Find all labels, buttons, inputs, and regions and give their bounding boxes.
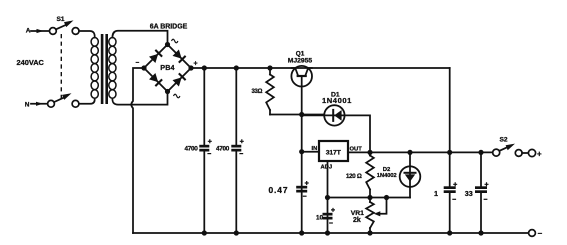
- svg-text:S1: S1: [57, 16, 65, 23]
- switch S1 pole2 left contact: [48, 100, 55, 107]
- switch S2 left contact: [493, 149, 500, 156]
- wire N with arrowhead: [31, 103, 48, 105]
- switch S1 pole2 right contact: [72, 100, 79, 107]
- node wiper junction: [384, 195, 389, 200]
- capacitor C6 33uF lead: [480, 152, 482, 233]
- wire R1 bottom to Q1 base node: [270, 114, 324, 116]
- svg-text:N: N: [25, 102, 30, 109]
- wire Q1-base-node down to IN: [301, 115, 303, 234]
- capacitor C1 4700 plates: [199, 145, 209, 148]
- diode D1 wire to OUT node: [345, 115, 370, 152]
- node output line / C5: [447, 150, 452, 155]
- AC squiggle bottom: [174, 94, 180, 98]
- node R1 top: [267, 65, 272, 70]
- bridge rectifier PB4 outline: [144, 45, 191, 92]
- node C2 top: [234, 65, 239, 70]
- transformer primary winding: [91, 38, 98, 99]
- svg-text:Q1: Q1: [296, 51, 305, 58]
- svg-text:IN: IN: [312, 146, 318, 152]
- switch S1 pole1 right contact: [72, 28, 79, 35]
- wire A with arrowhead: [31, 30, 50, 32]
- svg-text:0.47: 0.47: [269, 185, 289, 195]
- wire to primary top: [79, 31, 95, 38]
- diode D2 symbol (cathode up): [409, 166, 411, 186]
- output line from regulator: [348, 151, 493, 153]
- svg-text:4700: 4700: [185, 146, 199, 153]
- svg-text:MJ2955: MJ2955: [288, 58, 313, 65]
- node C1 top: [202, 65, 207, 70]
- node C6 bottom: [478, 230, 483, 235]
- node C6 top: [478, 150, 483, 155]
- bridge diode top-right: [172, 49, 185, 62]
- switch S1 pole1 left contact: [50, 28, 57, 35]
- node ADJ junction: [325, 195, 330, 200]
- bridge diode bottom-right: [172, 73, 185, 86]
- negative wire from bridge with crossover hop: [131, 68, 144, 233]
- svg-text:33Ω: 33Ω: [252, 89, 263, 95]
- capacitor 10 plates: [323, 213, 333, 216]
- node D2 top: [407, 150, 412, 155]
- potentiometer VR1 2k: [369, 198, 371, 203]
- wire to primary bottom: [79, 100, 95, 104]
- capacitor C5 1uF lead: [449, 152, 451, 233]
- node C2 bottom: [234, 230, 239, 235]
- node IN junction: [299, 149, 304, 154]
- transistor Q1 base lead: [301, 77, 303, 115]
- svg-text:+: +: [537, 150, 542, 159]
- node 0.47 bottom rail: [299, 230, 304, 235]
- transistor Q1 circle: [291, 66, 312, 87]
- wire rail to output line: [449, 68, 451, 152]
- diode D1 symbol (cathode left): [324, 114, 344, 116]
- AC squiggle top: [172, 39, 178, 43]
- transformer core: [101, 34, 104, 104]
- svg-text:10: 10: [316, 214, 324, 221]
- node R2 bottom: [367, 195, 372, 200]
- switch S2 right contact: [515, 150, 522, 157]
- wire ADJ node to R2/VR1 node: [328, 197, 411, 199]
- svg-text:1: 1: [434, 189, 438, 198]
- svg-text:1N4001: 1N4001: [322, 96, 352, 105]
- diode D2 lead from output line: [409, 152, 411, 166]
- top positive rail: [191, 67, 450, 69]
- capacitor 0.47 plates: [296, 186, 307, 189]
- svg-text:120 Ω: 120 Ω: [346, 173, 362, 180]
- bottom negative rail: [133, 232, 529, 234]
- node 120ohm top: [367, 150, 372, 155]
- capacitor C6 33uF plates: [475, 186, 487, 189]
- switch S2 blade: [500, 147, 508, 151]
- resistor R2 120ohm: [369, 152, 371, 155]
- output - terminal: [529, 230, 536, 237]
- svg-text:4700: 4700: [216, 146, 230, 153]
- svg-text:−: −: [538, 229, 543, 238]
- node Q1 base junction: [299, 112, 304, 117]
- bridge diode top-left: [149, 50, 162, 63]
- S1 gang dashed link: [60, 34, 62, 100]
- transistor Q1 internals: [292, 67, 312, 69]
- VR1 wiper arm: [379, 198, 387, 214]
- transformer secondary winding: [109, 38, 116, 99]
- node bridge plus: [188, 65, 193, 70]
- wire secondary top to bridge AC1: [112, 31, 167, 45]
- wire IN junction to regulator: [302, 151, 319, 153]
- regulator U1 317T box: [319, 141, 348, 161]
- wire S2 to + terminal: [522, 152, 528, 154]
- svg-text:ADJ: ADJ: [321, 165, 333, 171]
- diode D1 circle: [324, 105, 344, 125]
- node C1 bottom: [202, 230, 207, 235]
- capacitor C2 4700 plates: [231, 145, 241, 148]
- svg-text:1N4002: 1N4002: [377, 173, 397, 179]
- svg-text:2k: 2k: [353, 217, 361, 224]
- capacitor C2 4700 lead: [235, 68, 237, 233]
- output + terminal: [528, 149, 535, 156]
- switch S1 pole2 blade: [54, 97, 64, 102]
- node C5 bottom: [447, 230, 452, 235]
- svg-text:240VAC: 240VAC: [17, 58, 45, 67]
- diode D2 circle: [400, 166, 421, 187]
- diode D1 wire from base node: [302, 114, 325, 116]
- bridge diode bottom-left: [149, 73, 162, 86]
- wire ADJ down: [327, 161, 329, 233]
- svg-text:317T: 317T: [326, 150, 342, 157]
- svg-text:6A BRIDGE: 6A BRIDGE: [150, 24, 188, 31]
- svg-text:+: +: [194, 61, 198, 68]
- svg-text:S2: S2: [500, 136, 508, 143]
- wire secondary bottom to bridge AC2: [112, 92, 167, 105]
- svg-text:A: A: [26, 28, 31, 35]
- capacitor C1 4700 lead: [203, 68, 205, 233]
- node bridge AC2: [165, 89, 170, 94]
- node VR1 bottom rail: [367, 230, 372, 235]
- svg-text:−: −: [136, 60, 140, 67]
- node bridge AC1: [165, 42, 170, 47]
- diode D2 lead to ADJ node: [409, 187, 411, 198]
- svg-text:VR1: VR1: [351, 210, 364, 217]
- switch S1 pole1 blade: [56, 25, 67, 30]
- svg-text:33: 33: [465, 189, 473, 198]
- capacitor C5 1uF plates: [444, 186, 456, 189]
- node bridge minus: [141, 65, 146, 70]
- svg-text:PB4: PB4: [160, 63, 174, 72]
- node 10 bottom: [325, 230, 330, 235]
- resistor R1 33ohm lead/zigzag: [269, 68, 271, 75]
